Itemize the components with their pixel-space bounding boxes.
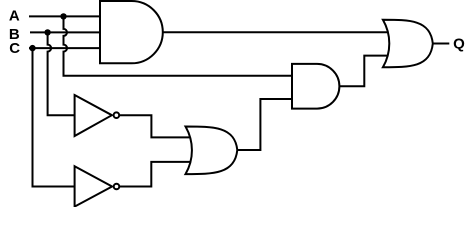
junction node B [44, 29, 50, 35]
and-gate U1 (3-input AND, inputs A,B,C) [100, 1, 163, 63]
svg-text:C: C [9, 40, 20, 57]
wire U6 output to node Q [433, 43, 450, 45]
wire input B [30, 31, 100, 33]
wire U3 output to U5 pin 2 [119, 162, 190, 187]
wire input C [29, 47, 100, 49]
wire node A branch: junction to U4 pin 1, hops over nets B and C [64, 16, 293, 75]
inverter U3 (NOT, input C) [75, 166, 113, 206]
bubble U2 output [114, 112, 120, 118]
junction node C [29, 45, 35, 51]
or-gate U5 (2-input OR, lower) [186, 127, 238, 175]
wire U2 output to U5 pin 1 [119, 115, 190, 137]
wire U5 output to U4 pin 2 [237, 99, 292, 150]
wire U1 output to U6 pin 1 [163, 31, 388, 33]
inverter U2 (NOT, input B) [75, 95, 112, 136]
bubble U3 output [114, 184, 120, 190]
or-gate U6 (2-input OR, output stage) [383, 20, 433, 68]
wire input A [29, 15, 100, 17]
wire node B branch: junction to U2 pin 1, hop over net C [48, 32, 75, 115]
svg-text:Q: Q [453, 36, 465, 53]
and-gate U4 (2-input AND, middle) [292, 64, 339, 109]
wire node C branch: junction to U3 pin 1 [33, 48, 75, 186]
junction node A [60, 13, 66, 19]
wire U4 output to U6 pin 2 [339, 56, 388, 87]
svg-text:A: A [9, 7, 20, 24]
